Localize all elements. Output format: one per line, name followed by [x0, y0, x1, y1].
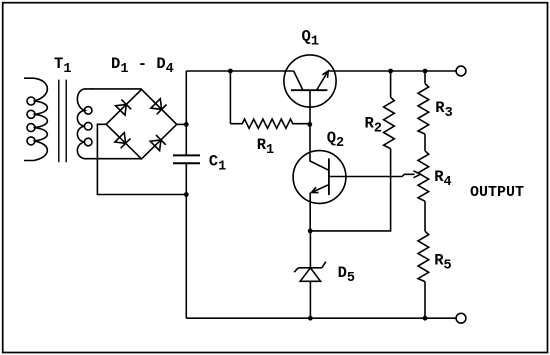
junction dot D5 / ground rail — [308, 316, 313, 321]
wire top rail right segment — [328, 70, 456, 72]
junction dot bridge negative return / ground — [184, 192, 189, 197]
wire bottom ground rail — [186, 317, 456, 319]
transistor Q1 — [284, 55, 336, 125]
transformer T1 primary winding — [24, 78, 47, 160]
node Q2 emitter / D5 / R2 — [308, 229, 313, 234]
transistor Q2 — [293, 124, 346, 230]
wire top rail left segment — [186, 70, 293, 72]
svg-text:R4: R4 — [434, 168, 451, 190]
svg-text:R2: R2 — [365, 114, 382, 136]
resistor R5 — [418, 231, 429, 281]
diode D4 (bottom-right) — [150, 135, 166, 151]
svg-text:R3: R3 — [435, 99, 452, 121]
transformer T1 secondary winding — [77, 89, 92, 159]
diode D1 (top-left) — [116, 100, 132, 116]
output terminal positive — [456, 66, 466, 76]
resistor R3 — [418, 84, 429, 134]
svg-text:D5: D5 — [338, 264, 355, 286]
diode D2 (top-right) — [151, 99, 167, 115]
wire R1 to top rail — [229, 71, 231, 124]
svg-text:Q2: Q2 — [327, 129, 344, 151]
resistor R2 — [384, 97, 395, 148]
svg-text:Q1: Q1 — [302, 27, 319, 49]
junction dot bridge positive / C1 — [184, 122, 189, 127]
wire R5 bottom to ground rail — [424, 282, 426, 319]
wire R3 to top rail — [424, 71, 426, 84]
junction dot R1 / top rail — [228, 69, 233, 74]
wire secondary bottom to bridge AC node bottom — [91, 158, 142, 160]
wire Q2 base to R4 wiper — [329, 174, 415, 176]
svg-text:T1: T1 — [54, 55, 71, 77]
wire bridge negative corner to ground rail — [97, 124, 186, 194]
wire R4 bottom to R5 top — [424, 201, 426, 231]
wiper arrowhead into R4 — [414, 171, 421, 178]
wire unregulated node down to C1 top — [185, 71, 187, 155]
wire R3 bottom to R4 top — [424, 134, 426, 151]
output terminal negative — [456, 313, 466, 323]
svg-text:R1: R1 — [257, 136, 274, 158]
diode D3 (bottom-left) — [115, 133, 131, 149]
zener diode D5 — [294, 231, 326, 318]
svg-text:C1: C1 — [209, 152, 226, 174]
wire secondary top to bridge AC node top — [91, 88, 142, 90]
resistor R4 potentiometer — [418, 151, 429, 201]
junction dot R5 / ground rail — [423, 316, 428, 321]
bridge rectifier diamond wires D1 - D4 — [106, 89, 177, 158]
resistor R1 — [230, 119, 309, 128]
capacitor C1 — [173, 155, 200, 163]
wire bridge positive corner to main rail — [177, 123, 187, 125]
junction dot R2 / top rail — [388, 69, 393, 74]
node Q1 base / R1 / Q2 collector — [307, 122, 312, 127]
junction dot R3 / top rail — [423, 69, 428, 74]
svg-text:OUTPUT: OUTPUT — [470, 184, 524, 201]
svg-text:D1 - D4: D1 - D4 — [111, 55, 174, 77]
wire C1 bottom to ground rail — [185, 164, 187, 318]
wire Q2 emitter node to R2 bottom — [310, 149, 390, 231]
svg-text:R5: R5 — [434, 252, 451, 274]
transformer T1 core — [59, 80, 66, 163]
wire R2 to top rail — [390, 71, 392, 97]
